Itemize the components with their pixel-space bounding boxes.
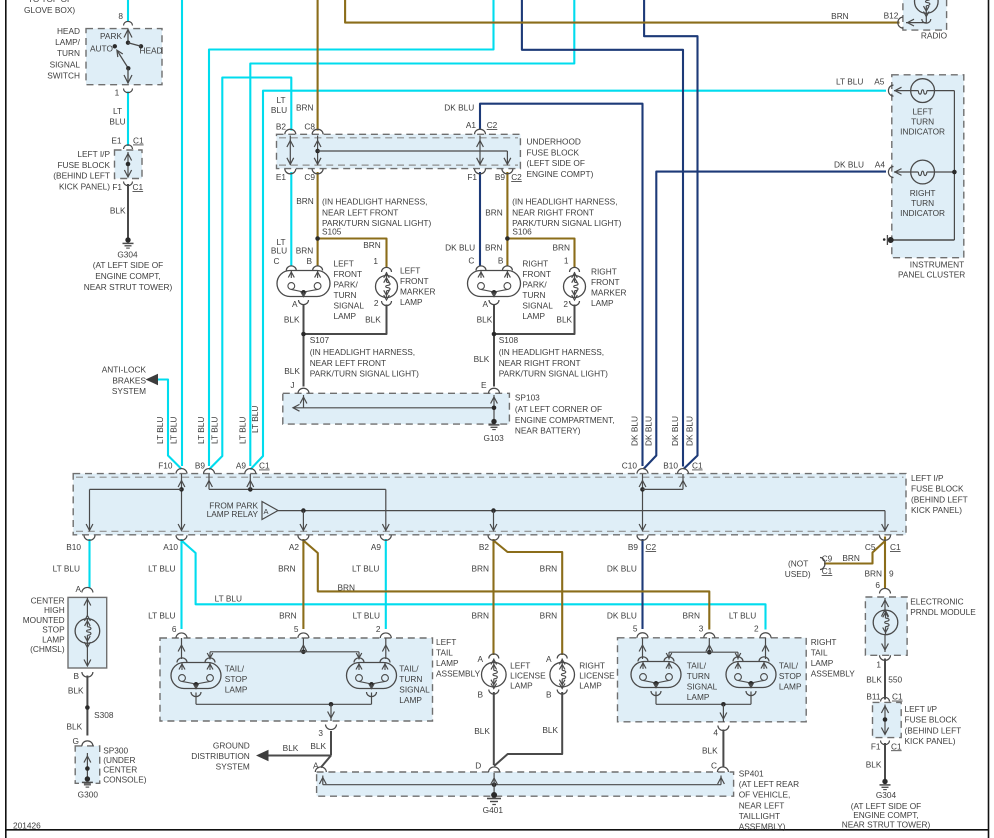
svg-text:LT BLU: LT BLU	[148, 564, 175, 574]
svg-text:SYSTEM: SYSTEM	[112, 386, 146, 396]
svg-text:LAMP: LAMP	[811, 658, 834, 668]
svg-text:LAMP: LAMP	[400, 297, 423, 307]
svg-text:BRN: BRN	[540, 610, 558, 620]
svg-text:B11: B11	[866, 692, 881, 702]
svg-text:2: 2	[376, 624, 381, 634]
svg-text:SIGNAL: SIGNAL	[522, 301, 553, 311]
svg-text:BLK: BLK	[284, 366, 300, 376]
svg-text:LT: LT	[276, 95, 285, 105]
svg-text:BLK: BLK	[68, 686, 84, 696]
svg-text:(CHMSL): (CHMSL)	[30, 644, 65, 654]
svg-text:C: C	[274, 256, 280, 266]
svg-text:BLU: BLU	[271, 246, 287, 256]
svg-text:ASSEMBLY: ASSEMBLY	[811, 669, 856, 679]
svg-text:C1: C1	[133, 136, 144, 146]
svg-text:LT BLU: LT BLU	[352, 564, 379, 574]
svg-text:LAMP/: LAMP/	[55, 37, 81, 47]
svg-text:INSTRUMENT: INSTRUMENT	[910, 259, 964, 269]
svg-text:LT BLU: LT BLU	[353, 610, 380, 620]
svg-text:(NOT: (NOT	[788, 558, 808, 568]
svg-text:A: A	[482, 299, 488, 309]
svg-text:B: B	[498, 255, 504, 265]
svg-text:SIGNAL: SIGNAL	[687, 682, 718, 692]
svg-text:MOUNTED: MOUNTED	[23, 615, 65, 625]
svg-text:SYSTEM: SYSTEM	[216, 762, 250, 772]
svg-text:(BEHIND LEFT: (BEHIND LEFT	[911, 494, 968, 504]
svg-text:TURN: TURN	[687, 671, 710, 681]
svg-text:F1: F1	[871, 741, 881, 751]
svg-text:USED): USED)	[785, 569, 811, 579]
svg-text:SP300: SP300	[103, 746, 128, 756]
svg-text:1: 1	[564, 255, 569, 265]
svg-text:(BEHIND LEFT: (BEHIND LEFT	[53, 171, 110, 181]
svg-text:A9: A9	[371, 542, 382, 552]
svg-text:BRN: BRN	[279, 610, 297, 620]
svg-text:PANEL CLUSTER: PANEL CLUSTER	[898, 270, 965, 280]
svg-text:C2: C2	[511, 172, 522, 182]
svg-text:(LEFT SIDE OF: (LEFT SIDE OF	[527, 158, 585, 168]
svg-text:DISTRIBUTION: DISTRIBUTION	[191, 751, 250, 761]
svg-text:A: A	[477, 654, 483, 664]
svg-text:ANTI-LOCK: ANTI-LOCK	[102, 365, 147, 375]
svg-text:LEFT: LEFT	[436, 637, 456, 647]
svg-text:TURN: TURN	[911, 117, 934, 127]
svg-text:J: J	[290, 380, 294, 390]
svg-text:ENGINE COMPT,: ENGINE COMPT,	[95, 271, 160, 281]
svg-text:5: 5	[633, 624, 638, 634]
svg-text:B2: B2	[276, 122, 287, 132]
svg-text:TAIL/: TAIL/	[399, 664, 419, 674]
svg-text:DK BLU: DK BLU	[607, 610, 637, 620]
svg-text:LAMP: LAMP	[399, 695, 422, 705]
svg-text:G304: G304	[876, 790, 897, 800]
svg-text:C2: C2	[646, 542, 657, 552]
svg-text:C5: C5	[865, 542, 876, 552]
svg-text:RIGHT: RIGHT	[910, 188, 936, 198]
svg-text:TURN: TURN	[57, 48, 80, 58]
svg-text:(IN HEADLIGHT HARNESS,: (IN HEADLIGHT HARNESS,	[512, 197, 617, 207]
svg-text:LT BLU: LT BLU	[53, 564, 80, 574]
svg-text:S105: S105	[322, 227, 342, 237]
svg-text:DK BLU: DK BLU	[685, 416, 695, 446]
svg-text:LT BLU: LT BLU	[729, 610, 756, 620]
svg-text:A2: A2	[289, 542, 300, 552]
svg-text:MARKER: MARKER	[400, 287, 436, 297]
svg-text:KICK PANEL): KICK PANEL)	[911, 505, 962, 515]
svg-text:BLK: BLK	[284, 315, 300, 325]
svg-text:(AT LEFT REAR: (AT LEFT REAR	[739, 779, 799, 789]
svg-text:C10: C10	[622, 461, 638, 471]
svg-text:TURN: TURN	[399, 674, 422, 684]
svg-text:BLK: BLK	[477, 315, 493, 325]
svg-text:KICK PANEL): KICK PANEL)	[905, 736, 956, 746]
svg-text:LEFT: LEFT	[912, 107, 932, 117]
svg-text:B9: B9	[195, 461, 206, 471]
svg-text:LT BLU: LT BLU	[250, 406, 260, 433]
svg-text:LEFT: LEFT	[510, 661, 530, 671]
svg-text:BRN: BRN	[278, 564, 296, 574]
svg-text:FUSE BLOCK: FUSE BLOCK	[527, 147, 580, 157]
svg-text:STOP: STOP	[42, 625, 65, 635]
svg-text:6: 6	[875, 580, 880, 590]
svg-text:S308: S308	[94, 710, 114, 720]
svg-text:CONSOLE): CONSOLE)	[103, 774, 147, 784]
svg-text:STOP: STOP	[225, 674, 248, 684]
svg-text:G103: G103	[483, 433, 504, 443]
svg-text:G: G	[73, 736, 79, 746]
svg-text:PARK/: PARK/	[522, 280, 547, 290]
svg-text:LICENSE: LICENSE	[579, 671, 615, 681]
svg-text:LAMP: LAMP	[591, 298, 614, 308]
svg-text:LEFT I/P: LEFT I/P	[77, 149, 110, 159]
svg-text:B12: B12	[884, 11, 899, 21]
svg-text:SP103: SP103	[515, 393, 540, 403]
svg-text:SIGNAL: SIGNAL	[334, 301, 365, 311]
svg-text:1: 1	[876, 660, 881, 670]
svg-text:B2: B2	[479, 542, 490, 552]
svg-text:C9: C9	[304, 172, 315, 182]
svg-text:BLK: BLK	[474, 354, 490, 364]
svg-text:NEAR RIGHT FRONT: NEAR RIGHT FRONT	[499, 358, 581, 368]
svg-text:A: A	[75, 584, 81, 594]
svg-text:BRN: BRN	[471, 564, 489, 574]
svg-text:B10: B10	[66, 542, 81, 552]
svg-text:NEAR STRUT TOWER): NEAR STRUT TOWER)	[842, 820, 931, 830]
svg-text:(UNDER: (UNDER	[103, 755, 135, 765]
svg-text:A5: A5	[874, 77, 885, 87]
svg-text:BRN: BRN	[363, 240, 381, 250]
svg-text:LT BLU: LT BLU	[148, 610, 175, 620]
svg-text:A4: A4	[875, 160, 886, 170]
svg-text:TAIL: TAIL	[811, 648, 828, 658]
svg-text:(AT LEFT CORNER OF: (AT LEFT CORNER OF	[515, 404, 602, 414]
svg-text:S108: S108	[499, 335, 519, 345]
svg-text:B: B	[306, 256, 312, 266]
svg-text:SIGNAL: SIGNAL	[399, 685, 430, 695]
svg-text:A: A	[313, 761, 319, 771]
svg-text:SIGNAL: SIGNAL	[50, 59, 81, 69]
svg-text:LT: LT	[113, 106, 122, 116]
svg-text:NEAR BATTERY): NEAR BATTERY)	[515, 426, 581, 436]
svg-text:G401: G401	[483, 805, 504, 815]
svg-text:HEAD: HEAD	[140, 46, 163, 56]
svg-text:LEFT I/P: LEFT I/P	[905, 704, 938, 714]
svg-text:DK BLU: DK BLU	[607, 564, 637, 574]
svg-text:SP401: SP401	[739, 768, 764, 778]
svg-text:F1: F1	[467, 172, 477, 182]
svg-text:B: B	[477, 690, 483, 700]
svg-text:OF VEHICLE,: OF VEHICLE,	[739, 790, 791, 800]
svg-text:2: 2	[754, 624, 759, 634]
svg-text:FRONT: FRONT	[591, 277, 620, 287]
svg-text:BRN: BRN	[540, 564, 558, 574]
svg-text:C1: C1	[692, 461, 703, 471]
svg-text:BRAKES: BRAKES	[112, 375, 146, 385]
svg-text:ENGINE COMPT): ENGINE COMPT)	[527, 169, 594, 179]
svg-text:DK BLU: DK BLU	[644, 416, 654, 446]
svg-text:TURN: TURN	[334, 290, 357, 300]
svg-text:BRN: BRN	[485, 207, 503, 217]
svg-text:BRN: BRN	[485, 243, 503, 253]
svg-text:F10: F10	[158, 461, 173, 471]
svg-text:RIGHT: RIGHT	[591, 267, 617, 277]
svg-text:3: 3	[699, 624, 704, 634]
svg-text:C1: C1	[259, 461, 270, 471]
svg-text:LEFT: LEFT	[334, 259, 354, 269]
svg-text:FUSE BLOCK: FUSE BLOCK	[911, 484, 964, 494]
svg-text:5: 5	[294, 624, 299, 634]
svg-text:G300: G300	[78, 789, 99, 799]
svg-text:BLK: BLK	[110, 205, 126, 215]
svg-text:TO TOP OF: TO TOP OF	[28, 0, 72, 4]
svg-text:CENTER: CENTER	[31, 596, 65, 606]
svg-text:PARK/TURN SIGNAL LIGHT): PARK/TURN SIGNAL LIGHT)	[499, 369, 608, 379]
svg-text:C8: C8	[304, 122, 315, 132]
svg-text:BRN: BRN	[831, 11, 849, 21]
svg-text:BLK: BLK	[283, 743, 299, 753]
svg-text:C: C	[711, 760, 717, 770]
svg-text:RIGHT: RIGHT	[811, 637, 837, 647]
svg-text:LEFT I/P: LEFT I/P	[911, 473, 944, 483]
svg-text:E1: E1	[111, 136, 122, 146]
svg-text:A: A	[292, 299, 298, 309]
svg-text:F1: F1	[112, 182, 122, 192]
svg-text:BLK: BLK	[542, 725, 558, 735]
svg-text:2: 2	[374, 298, 379, 308]
svg-text:LT BLU: LT BLU	[210, 417, 220, 444]
svg-text:DK BLU: DK BLU	[630, 416, 640, 446]
svg-text:TAIL/: TAIL/	[687, 661, 707, 671]
svg-text:CENTER: CENTER	[103, 765, 137, 775]
svg-text:G304: G304	[117, 250, 138, 260]
svg-text:PRNDL MODULE: PRNDL MODULE	[910, 607, 976, 617]
svg-text:LAMP RELAY: LAMP RELAY	[207, 509, 259, 519]
svg-text:FRONT: FRONT	[334, 269, 363, 279]
svg-text:A10: A10	[163, 542, 178, 552]
svg-text:9: 9	[889, 569, 894, 579]
svg-text:B9: B9	[628, 542, 639, 552]
svg-text:BLK: BLK	[866, 675, 882, 685]
svg-text:LT BLU: LT BLU	[196, 417, 206, 444]
svg-text:TAILLIGHT: TAILLIGHT	[739, 811, 780, 821]
svg-text:LICENSE: LICENSE	[510, 671, 546, 681]
svg-text:1: 1	[373, 256, 378, 266]
svg-text:RIGHT: RIGHT	[579, 661, 605, 671]
svg-text:BRN: BRN	[842, 553, 860, 563]
svg-text:UNDERHOOD: UNDERHOOD	[527, 137, 581, 147]
svg-text:BLU: BLU	[109, 117, 125, 127]
svg-text:LT BLU: LT BLU	[238, 417, 248, 444]
svg-text:ASSEMBLY: ASSEMBLY	[436, 669, 481, 679]
svg-text:LT BLU: LT BLU	[155, 417, 165, 444]
svg-text:NEAR RIGHT FRONT: NEAR RIGHT FRONT	[512, 207, 594, 217]
svg-text:BLK: BLK	[866, 759, 882, 769]
svg-text:C: C	[468, 255, 474, 265]
svg-text:FUSE BLOCK: FUSE BLOCK	[905, 715, 958, 725]
svg-text:S107: S107	[310, 335, 330, 345]
svg-text:INDICATOR: INDICATOR	[900, 208, 945, 218]
svg-text:BLU: BLU	[271, 105, 287, 115]
svg-text:RADIO: RADIO	[921, 30, 948, 40]
svg-text:RIGHT: RIGHT	[522, 259, 548, 269]
svg-text:BRN: BRN	[552, 243, 570, 253]
svg-text:BLK: BLK	[310, 741, 326, 751]
svg-text:BLK: BLK	[365, 315, 381, 325]
svg-text:DK BLU: DK BLU	[670, 416, 680, 446]
svg-text:DK BLU: DK BLU	[445, 243, 475, 253]
svg-text:TAIL: TAIL	[436, 648, 453, 658]
svg-text:LAMP: LAMP	[522, 311, 545, 321]
svg-text:LAMP: LAMP	[436, 658, 459, 668]
svg-text:ASSEMBLY): ASSEMBLY)	[739, 822, 786, 832]
svg-text:C1: C1	[890, 542, 901, 552]
svg-text:BLK: BLK	[702, 745, 718, 755]
svg-text:NEAR STRUT TOWER): NEAR STRUT TOWER)	[84, 282, 173, 292]
svg-text:SWITCH: SWITCH	[47, 70, 80, 80]
svg-text:8: 8	[118, 11, 123, 21]
svg-text:GROUND: GROUND	[213, 741, 250, 751]
svg-text:C2: C2	[487, 120, 498, 130]
svg-text:(AT LEFT SIDE OF: (AT LEFT SIDE OF	[93, 260, 164, 270]
svg-text:E1: E1	[276, 172, 287, 182]
svg-text:4: 4	[713, 728, 718, 738]
svg-text:KICK PANEL): KICK PANEL)	[59, 181, 110, 191]
svg-text:C9: C9	[822, 554, 833, 564]
svg-text:BRN: BRN	[296, 246, 314, 256]
svg-text:PARK/: PARK/	[334, 280, 359, 290]
svg-text:B9: B9	[495, 172, 506, 182]
svg-text:LAMP: LAMP	[334, 311, 357, 321]
svg-text:3: 3	[318, 728, 323, 738]
svg-text:B: B	[73, 671, 79, 681]
svg-text:TAIL/: TAIL/	[225, 664, 245, 674]
svg-text:B10: B10	[663, 461, 678, 471]
svg-text:LAMP: LAMP	[687, 692, 710, 702]
svg-text:E: E	[481, 380, 487, 390]
svg-text:D: D	[475, 761, 481, 771]
svg-text:NEAR LEFT: NEAR LEFT	[739, 800, 785, 810]
svg-text:AUTO: AUTO	[90, 44, 113, 54]
svg-text:PARK/TURN SIGNAL LIGHT): PARK/TURN SIGNAL LIGHT)	[310, 369, 419, 379]
svg-text:C1: C1	[133, 182, 144, 192]
svg-text:INDICATOR: INDICATOR	[900, 127, 945, 137]
svg-text:C1: C1	[891, 741, 902, 751]
svg-text:LAMP: LAMP	[779, 682, 802, 692]
svg-text:A1: A1	[466, 120, 477, 130]
svg-text:HIGH: HIGH	[44, 605, 65, 615]
svg-text:A: A	[264, 507, 269, 516]
svg-text:TAIL/: TAIL/	[779, 661, 799, 671]
svg-text:(IN HEADLIGHT HARNESS,: (IN HEADLIGHT HARNESS,	[322, 197, 427, 207]
svg-text:1: 1	[115, 88, 120, 98]
svg-text:STOP: STOP	[779, 671, 802, 681]
svg-text:(IN HEADLIGHT HARNESS,: (IN HEADLIGHT HARNESS,	[499, 347, 604, 357]
svg-text:2: 2	[563, 299, 568, 309]
svg-text:DK BLU: DK BLU	[444, 103, 474, 113]
svg-text:C1: C1	[892, 692, 903, 702]
svg-text:A9: A9	[236, 461, 247, 471]
svg-text:LAMP: LAMP	[579, 681, 602, 691]
svg-text:550: 550	[888, 675, 902, 685]
svg-text:TURN: TURN	[522, 290, 545, 300]
svg-text:ELECTRONIC: ELECTRONIC	[910, 597, 963, 607]
svg-text:(BEHIND LEFT: (BEHIND LEFT	[905, 725, 962, 735]
svg-text:FUSE BLOCK: FUSE BLOCK	[57, 160, 110, 170]
svg-text:B: B	[546, 690, 552, 700]
svg-text:LEFT: LEFT	[400, 266, 420, 276]
svg-text:FRONT: FRONT	[522, 269, 551, 279]
svg-text:NEAR LEFT FRONT: NEAR LEFT FRONT	[322, 207, 398, 217]
svg-text:BRN: BRN	[471, 610, 489, 620]
svg-text:BLK: BLK	[67, 722, 83, 732]
svg-text:201426: 201426	[13, 821, 41, 831]
svg-text:GLOVE BOX): GLOVE BOX)	[24, 5, 75, 15]
svg-text:FRONT: FRONT	[400, 276, 429, 286]
svg-text:LT BLU: LT BLU	[169, 417, 179, 444]
svg-text:LAMP: LAMP	[225, 685, 248, 695]
svg-text:HEAD: HEAD	[57, 26, 80, 36]
svg-text:LAMP: LAMP	[42, 634, 65, 644]
svg-text:BLK: BLK	[556, 315, 572, 325]
svg-text:A: A	[546, 654, 552, 664]
svg-text:BRN: BRN	[296, 196, 314, 206]
svg-text:MARKER: MARKER	[591, 288, 627, 298]
svg-text:LT BLU: LT BLU	[836, 77, 863, 87]
svg-text:NEAR LEFT FRONT: NEAR LEFT FRONT	[310, 358, 386, 368]
svg-text:BRN: BRN	[864, 569, 882, 579]
svg-text:ENGINE COMPARTMENT,: ENGINE COMPARTMENT,	[515, 415, 615, 425]
svg-text:BRN: BRN	[682, 610, 700, 620]
svg-text:LT BLU: LT BLU	[215, 594, 242, 604]
svg-text:(IN HEADLIGHT HARNESS,: (IN HEADLIGHT HARNESS,	[310, 347, 415, 357]
svg-text:C1: C1	[822, 566, 833, 576]
svg-text:DK BLU: DK BLU	[834, 160, 864, 170]
svg-text:PARK: PARK	[100, 31, 122, 41]
svg-text:BLK: BLK	[474, 726, 490, 736]
svg-text:6: 6	[172, 624, 177, 634]
svg-text:BRN: BRN	[337, 583, 355, 593]
svg-text:S106: S106	[512, 227, 532, 237]
svg-text:LAMP: LAMP	[510, 681, 533, 691]
svg-text:BRN: BRN	[296, 103, 314, 113]
svg-text:TURN: TURN	[911, 198, 934, 208]
